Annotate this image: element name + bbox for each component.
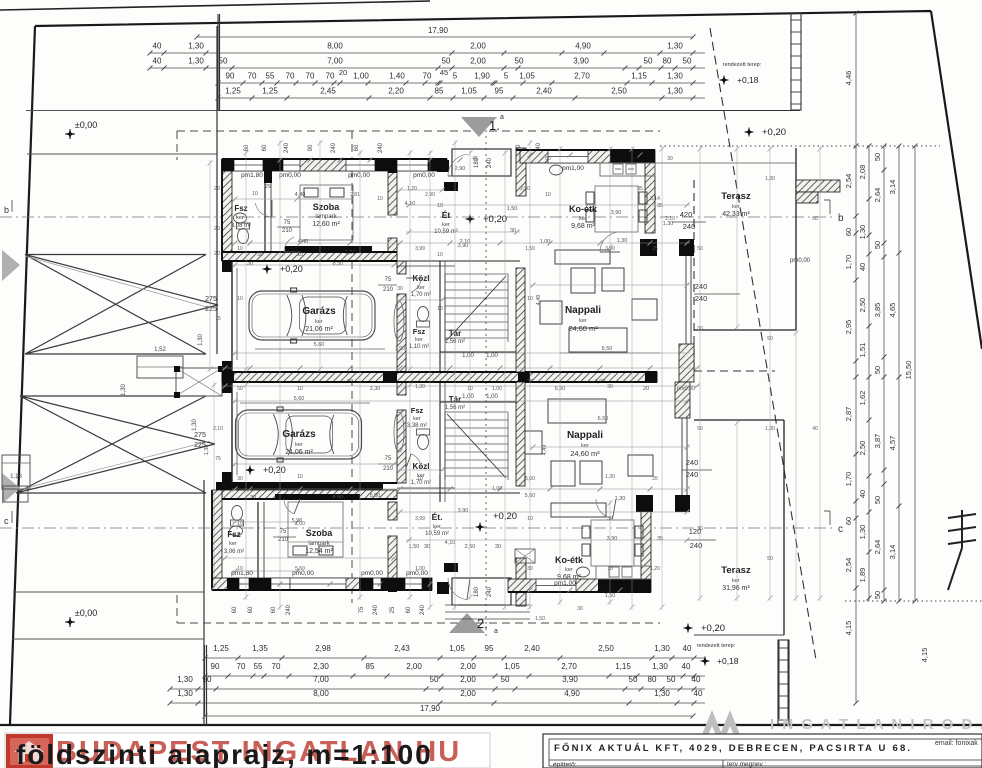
fence ladder bottom right: [778, 640, 789, 724]
dotted line y601: [845, 600, 982, 602]
left gray arrow lower: [2, 473, 20, 504]
lower east wall: [636, 495, 653, 512]
svg-text:50: 50: [545, 156, 551, 162]
driveway triangle lower: [16, 396, 215, 493]
svg-text:3,14: 3,14: [888, 545, 897, 560]
terrain line y592: [13, 591, 204, 593]
svg-text:2,81: 2,81: [350, 192, 360, 198]
svg-text:1,35: 1,35: [252, 644, 268, 653]
svg-text:3,87: 3,87: [873, 434, 882, 449]
svg-text:75: 75: [385, 456, 392, 462]
svg-text:90: 90: [308, 144, 314, 151]
vertical chain col3: [883, 146, 885, 601]
svg-text:rendezett terep:: rendezett terep:: [697, 643, 736, 649]
svg-text:2,54: 2,54: [844, 558, 853, 573]
upper entry: [452, 149, 511, 176]
svg-text:20: 20: [339, 68, 347, 77]
dim row b1: [205, 657, 705, 659]
svg-text:ker: ker: [433, 524, 441, 530]
svg-text:2,50: 2,50: [598, 644, 614, 653]
upper garage: [222, 261, 232, 272]
svg-text:I N G A T L A N I R O D A: I N G A T L A N I R O D A: [770, 716, 982, 733]
svg-text:3,14: 3,14: [650, 196, 660, 202]
upper bath fixtures: [237, 223, 250, 244]
lower garage-szoba wall: [216, 483, 383, 490]
upper kitchen right wall: [645, 163, 655, 233]
svg-text:ker: ker: [236, 215, 244, 221]
svg-text:50: 50: [873, 241, 882, 249]
svg-text:10: 10: [297, 474, 303, 480]
svg-text:1,30: 1,30: [121, 384, 127, 396]
svg-text:1,18: 1,18: [10, 474, 22, 480]
party wall: [222, 372, 657, 382]
svg-text:10: 10: [237, 296, 243, 302]
nappali west wall upper: [516, 268, 525, 372]
svg-text:25: 25: [652, 476, 658, 482]
svg-text:5,60: 5,60: [525, 476, 535, 482]
upper wardrobe: [285, 246, 372, 252]
svg-text:1,30: 1,30: [858, 225, 867, 240]
svg-text:c: c: [4, 516, 9, 526]
interior dim lines horizontal: [397, 189, 445, 191]
svg-text:2,00: 2,00: [470, 42, 486, 51]
svg-text:8,00: 8,00: [327, 42, 343, 51]
svg-text:40: 40: [683, 644, 692, 653]
svg-text:30: 30: [527, 566, 533, 572]
door arcs extra: [284, 237, 294, 252]
svg-text:ker: ker: [413, 416, 421, 422]
left gray arrow upper: [2, 250, 20, 281]
svg-text:35: 35: [637, 186, 643, 192]
section marker 1: [461, 117, 497, 137]
svg-text:ker: ker: [229, 541, 237, 547]
red logo: [6, 734, 53, 768]
svg-text:60: 60: [844, 228, 853, 236]
svg-text:50: 50: [667, 675, 676, 684]
svg-text:30: 30: [424, 544, 430, 550]
svg-text:70: 70: [326, 72, 335, 81]
dotted line y146: [660, 145, 940, 147]
svg-text:1,30: 1,30: [667, 42, 683, 51]
plot boundary outer line top: [0, 1, 430, 10]
svg-text:275: 275: [194, 432, 206, 439]
svg-text:rendezett terep:: rendezett terep:: [723, 62, 762, 68]
long dashed slanted line: [710, 28, 816, 660]
svg-text:2,00: 2,00: [406, 662, 422, 671]
svg-text:12,54 m²: 12,54 m²: [305, 548, 333, 555]
svg-text:75: 75: [215, 316, 221, 322]
svg-text:50: 50: [812, 216, 818, 222]
svg-text:2,64: 2,64: [873, 188, 882, 203]
upper east wall: [640, 239, 657, 256]
svg-text:1,00: 1,00: [492, 486, 502, 492]
svg-text:1,00: 1,00: [415, 566, 425, 572]
svg-text:55: 55: [266, 72, 275, 81]
svg-text:75: 75: [284, 220, 291, 226]
bottom block left edge: [204, 645, 206, 716]
svg-text:60: 60: [262, 144, 268, 151]
vertical chain col1: [855, 13, 857, 703]
svg-text:20: 20: [214, 186, 220, 192]
svg-text:50: 50: [442, 57, 451, 66]
svg-text:25: 25: [390, 606, 396, 613]
svg-text:10: 10: [527, 516, 533, 522]
svg-text:30: 30: [667, 156, 673, 162]
svg-text:50: 50: [697, 246, 703, 252]
svg-text:12,60 m²: 12,60 m²: [312, 221, 340, 228]
svg-text:1,30: 1,30: [605, 474, 615, 480]
svg-text:4,90: 4,90: [575, 42, 591, 51]
svg-text:Szoba: Szoba: [306, 528, 333, 538]
svg-text:30: 30: [237, 476, 243, 482]
svg-text:2,00: 2,00: [460, 675, 476, 684]
svg-text:2,95: 2,95: [844, 320, 853, 335]
svg-text:10,59 m²: 10,59 m²: [425, 531, 449, 537]
svg-text:1,05: 1,05: [461, 87, 477, 96]
upper left wall: [222, 171, 232, 261]
svg-text:2,87: 2,87: [844, 407, 853, 422]
lower entry: [452, 578, 511, 605]
lower nappali furniture: [520, 399, 653, 517]
svg-text:terv megnev :: terv megnev :: [727, 761, 767, 768]
svg-text:20: 20: [214, 226, 220, 232]
upper bed: [300, 185, 353, 240]
svg-text:+0,20: +0,20: [483, 214, 507, 225]
svg-text:9,68 m²: 9,68 m²: [571, 223, 595, 230]
bottom plot line: [0, 724, 982, 726]
svg-text:építtető:: építtető:: [553, 762, 577, 768]
svg-text:10: 10: [237, 246, 243, 252]
svg-text:24,60 m²: 24,60 m²: [570, 449, 600, 458]
svg-text:50: 50: [219, 57, 228, 66]
svg-text:60: 60: [271, 606, 277, 613]
svg-text:1,25: 1,25: [213, 644, 229, 653]
terrace dashed upper: [694, 180, 775, 371]
fence line x217: [216, 26, 218, 354]
svg-text:2,50: 2,50: [858, 441, 867, 456]
svg-text:+0,18: +0,18: [717, 656, 739, 666]
svg-text:40: 40: [858, 490, 867, 498]
svg-text:180: 180: [474, 586, 480, 597]
title block: [543, 734, 982, 768]
svg-text:pm0,00: pm0,00: [348, 172, 370, 179]
svg-text:3,90: 3,90: [458, 243, 469, 249]
svg-text:1,00: 1,00: [492, 386, 502, 392]
dim row b4: [170, 702, 705, 704]
svg-text:+0,20: +0,20: [701, 623, 725, 634]
svg-text:75: 75: [359, 606, 365, 613]
upper nappali furniture: [540, 250, 657, 352]
vertical chain col2: [868, 146, 870, 601]
svg-text:Terasz: Terasz: [721, 191, 751, 202]
svg-text:20: 20: [643, 386, 649, 392]
dim row t3: [150, 67, 705, 69]
svg-text:1,40: 1,40: [389, 72, 405, 81]
E symbol: [948, 510, 976, 590]
svg-text:6,50: 6,50: [598, 416, 609, 422]
svg-text:2,50: 2,50: [858, 298, 867, 313]
svg-text:10: 10: [437, 252, 443, 258]
svg-text:Fsz: Fsz: [227, 530, 240, 539]
dim row t5: [218, 97, 705, 99]
svg-text:2,08: 2,08: [858, 165, 867, 180]
lower terrace bottom edge: [694, 634, 784, 636]
svg-text:Szoba: Szoba: [313, 202, 340, 212]
svg-text:1,50: 1,50: [525, 246, 535, 252]
svg-text:1,30: 1,30: [198, 334, 204, 346]
svg-text:24,60 m²: 24,60 m²: [568, 324, 598, 333]
eave dashed outline: [177, 131, 660, 623]
svg-text:40: 40: [153, 42, 162, 51]
svg-text:17,90: 17,90: [428, 26, 449, 35]
svg-text:2,90: 2,90: [455, 166, 466, 172]
svg-text:2,40: 2,40: [536, 87, 552, 96]
outer wall edges: [212, 150, 657, 592]
svg-text:7,00: 7,00: [327, 57, 343, 66]
svg-text:ker: ker: [732, 204, 740, 210]
svg-text:4,40: 4,40: [295, 192, 306, 198]
svg-text:1,00: 1,00: [462, 394, 474, 400]
svg-text:4,15: 4,15: [920, 648, 929, 663]
lower car: [236, 407, 362, 462]
svg-text:3,99: 3,99: [415, 516, 425, 522]
svg-text:25: 25: [265, 184, 271, 190]
svg-text:60: 60: [354, 144, 360, 151]
upper entry door arc: [448, 154, 467, 176]
svg-text:80: 80: [648, 675, 657, 684]
svg-text:1,30: 1,30: [652, 662, 668, 671]
svg-text:1,30: 1,30: [177, 675, 193, 684]
svg-text:40: 40: [692, 675, 701, 684]
interior dim lines vertical: [209, 160, 211, 372]
svg-text:1,00: 1,00: [353, 72, 369, 81]
svg-text:8,50: 8,50: [333, 495, 344, 501]
svg-text:10: 10: [237, 521, 243, 527]
lower bath2 fixtures: [394, 412, 404, 452]
svg-text:4,10: 4,10: [445, 540, 456, 546]
dim row b2: [205, 675, 705, 677]
svg-text:1,05: 1,05: [504, 662, 520, 671]
svg-text:email: fonixak: email: fonixak: [935, 740, 978, 747]
svg-text:pm0,00: pm0,00: [413, 172, 435, 179]
svg-text:240: 240: [695, 282, 708, 291]
svg-text:földszinti alaprajz, m=1:100: földszinti alaprajz, m=1:100: [16, 739, 433, 768]
svg-text:45: 45: [440, 68, 448, 77]
svg-text:70: 70: [272, 662, 281, 671]
svg-text:30: 30: [577, 606, 583, 612]
fence ladder top right: [791, 13, 801, 110]
svg-text:1,00: 1,00: [486, 353, 498, 359]
svg-text:240: 240: [487, 157, 493, 168]
svg-text:+0,18: +0,18: [737, 75, 759, 85]
svg-text:60: 60: [232, 606, 238, 613]
svg-text:3,90: 3,90: [607, 536, 618, 542]
svg-text:4,49: 4,49: [536, 295, 542, 306]
svg-text:30: 30: [607, 384, 613, 390]
svg-text:1,50: 1,50: [409, 544, 420, 550]
svg-text:6,50: 6,50: [602, 346, 613, 352]
svg-text:50: 50: [237, 386, 243, 392]
svg-text:75: 75: [215, 456, 221, 462]
svg-text:10: 10: [297, 252, 303, 258]
svg-text:3,90: 3,90: [611, 210, 622, 216]
svg-text:21,06 m²: 21,06 m²: [285, 449, 313, 456]
svg-text:1,30: 1,30: [858, 525, 867, 540]
svg-text:1,90: 1,90: [474, 72, 490, 81]
svg-text:10: 10: [417, 476, 423, 482]
svg-text:3,99: 3,99: [415, 246, 425, 252]
svg-text:75: 75: [280, 529, 287, 535]
svg-text:60: 60: [248, 606, 254, 613]
svg-text:2,00: 2,00: [470, 57, 486, 66]
svg-text:ker: ker: [315, 319, 323, 325]
svg-text:50: 50: [501, 675, 510, 684]
gray watermark logo: [703, 718, 739, 740]
svg-text:210: 210: [278, 537, 289, 543]
svg-text:1,20: 1,20: [650, 566, 660, 572]
svg-text:1,25: 1,25: [225, 87, 241, 96]
svg-text:ker: ker: [442, 222, 450, 228]
small fixtures extra: [550, 165, 563, 175]
dim row 17,90 top: [197, 36, 693, 38]
svg-text:30: 30: [607, 516, 613, 522]
terrain line y639: [12, 638, 204, 640]
svg-text:70: 70: [306, 72, 315, 81]
svg-text:275: 275: [205, 296, 217, 303]
svg-text:70: 70: [237, 662, 246, 671]
upper szoba-entry wall: [388, 171, 397, 215]
svg-text:pm1,00: pm1,00: [562, 165, 584, 172]
svg-text:1,00: 1,00: [486, 394, 498, 400]
axis c: [0, 527, 832, 529]
lower bath partition: [257, 502, 259, 578]
lower kitchen bottom wall: [508, 579, 651, 592]
svg-text:10: 10: [297, 386, 303, 392]
dim row t4: [218, 82, 705, 84]
svg-text:50: 50: [873, 496, 882, 504]
svg-text:3,06 m²: 3,06 m²: [224, 549, 244, 555]
lower kitchen counter: [596, 566, 651, 579]
svg-text:2,43: 2,43: [394, 644, 410, 653]
svg-text:Garázs: Garázs: [282, 429, 316, 440]
svg-text:4,46: 4,46: [844, 71, 853, 86]
svg-text:5: 5: [453, 72, 458, 81]
svg-text:50: 50: [873, 153, 882, 161]
upper top wall piers: [222, 159, 234, 171]
svg-text:1,00: 1,00: [295, 521, 305, 527]
svg-text:1,30: 1,30: [188, 57, 204, 66]
svg-text:42,33 m²: 42,33 m²: [722, 211, 750, 218]
small gate box left: [2, 455, 30, 489]
svg-text:20: 20: [214, 251, 220, 257]
lower garage-hall wall: [397, 382, 406, 395]
svg-text:240: 240: [690, 541, 703, 550]
svg-text:1,30: 1,30: [192, 419, 198, 431]
svg-text:50: 50: [430, 675, 439, 684]
svg-text:225: 225: [205, 306, 217, 313]
upper kitchen counter: [600, 163, 655, 176]
strip below lower terrace: [778, 640, 780, 719]
svg-text:1,89: 1,89: [858, 568, 867, 583]
lower terrace: [783, 420, 785, 635]
svg-text:210: 210: [282, 228, 293, 234]
svg-text:ker: ker: [579, 216, 587, 222]
svg-text:2,40: 2,40: [524, 644, 540, 653]
svg-text:240: 240: [420, 604, 426, 615]
svg-text:10: 10: [437, 306, 443, 312]
svg-text:2,70: 2,70: [561, 662, 577, 671]
upper top wall windows: [234, 159, 263, 171]
svg-text:70: 70: [248, 72, 257, 81]
svg-text:+0,20: +0,20: [280, 264, 303, 274]
svg-text:±0,00: ±0,00: [75, 120, 97, 130]
top dimension block box: [217, 14, 219, 111]
svg-text:10: 10: [467, 386, 473, 392]
svg-text:3,90: 3,90: [573, 57, 589, 66]
svg-text:b: b: [4, 205, 9, 215]
svg-text:lampark: lampark: [308, 541, 330, 547]
driveway triangle upper: [25, 255, 218, 355]
svg-text:1,70: 1,70: [844, 472, 853, 487]
upper terrace: [795, 148, 797, 330]
svg-text:21,06 m²: 21,06 m²: [305, 326, 333, 333]
svg-text:50: 50: [629, 675, 638, 684]
svg-text:1,30: 1,30: [615, 496, 626, 502]
svg-text:1,30: 1,30: [667, 72, 683, 81]
svg-text:Ét: Ét: [442, 210, 451, 220]
svg-text:240: 240: [487, 586, 493, 597]
svg-text:b: b: [838, 213, 844, 224]
watermark panel: [5, 733, 490, 768]
section marker 2: [449, 613, 485, 633]
svg-text:3,30: 3,30: [370, 386, 381, 392]
axis b: [0, 216, 832, 218]
svg-text:25: 25: [652, 246, 658, 252]
terrain line y110: [26, 110, 217, 112]
svg-text:2,45: 2,45: [320, 87, 336, 96]
svg-text:1,51: 1,51: [858, 343, 867, 358]
svg-text:70: 70: [286, 72, 295, 81]
svg-text:1.: 1.: [489, 118, 500, 133]
upper east window lines: [685, 256, 687, 344]
svg-text:50: 50: [873, 591, 882, 599]
svg-text:70: 70: [423, 72, 432, 81]
terrain line y154: [27, 153, 217, 155]
svg-text:4,65: 4,65: [888, 303, 897, 318]
svg-text:8,00: 8,00: [313, 689, 329, 698]
svg-text:2,90: 2,90: [425, 192, 435, 198]
svg-text:1,50: 1,50: [507, 206, 518, 212]
svg-text:Ko-étk: Ko-étk: [569, 204, 598, 214]
svg-text:95: 95: [495, 87, 504, 96]
svg-text:240: 240: [373, 604, 379, 615]
svg-text:lampark: lampark: [315, 214, 337, 220]
svg-text:95: 95: [485, 644, 494, 653]
svg-text:30: 30: [697, 326, 703, 332]
svg-text:pm0,00: pm0,00: [279, 172, 301, 179]
svg-text:80: 80: [663, 57, 672, 66]
svg-text:ker: ker: [415, 337, 423, 343]
svg-text:2,64: 2,64: [873, 540, 882, 555]
svg-text:85: 85: [366, 662, 375, 671]
svg-text:1,30: 1,30: [177, 689, 193, 698]
svg-text:1,20: 1,20: [407, 186, 417, 192]
svg-text:3,90: 3,90: [562, 675, 578, 684]
svg-text:2,90: 2,90: [520, 186, 530, 192]
utility box 2: [176, 368, 222, 396]
svg-text:5,50: 5,50: [295, 566, 305, 572]
svg-text:pm1,80: pm1,80: [241, 172, 263, 179]
